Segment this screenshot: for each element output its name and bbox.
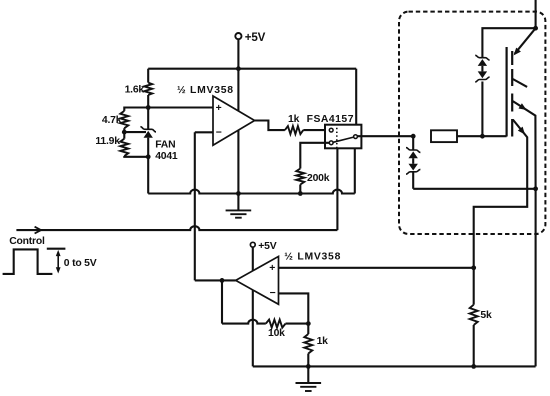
wire Z1 mid <box>412 158 414 164</box>
node ground rail / 200k junction <box>298 191 303 196</box>
node bottom rail / 1k junction <box>306 364 311 369</box>
node bottom rail / 5k junction <box>471 364 476 369</box>
diode zener Z1 upper (cathode up) <box>406 148 420 153</box>
node divider midpoint <box>122 130 127 135</box>
wire opamp2 noninverting input to sense node <box>279 267 474 269</box>
diode zener Z2 lower (cathode down) <box>478 71 487 78</box>
diode zener Z1 lower (cathode down) <box>409 164 418 171</box>
node sense / opamp2 + input junction <box>471 265 476 270</box>
wire top-section ground rail <box>148 190 355 194</box>
pin FSA4157 A common <box>354 135 358 139</box>
node opamp2 output junction <box>220 278 225 283</box>
wire module bottom horizontal <box>413 188 535 190</box>
wire 5k to bottom rail <box>473 325 475 366</box>
resistor 5k <box>470 305 478 325</box>
svg-text:4041: 4041 <box>155 151 178 162</box>
switch lever FSA4157 <box>333 137 354 142</box>
svg-text:5k: 5k <box>480 310 492 321</box>
svg-text:4.7k: 4.7k <box>102 115 122 126</box>
wire 10k to feedback node <box>286 323 309 325</box>
node gate / Z2 junction <box>480 134 485 139</box>
wire divider node to FAN4041 <box>124 131 146 133</box>
svg-text:1k: 1k <box>317 336 329 347</box>
transistor drain lead D1 <box>513 79 527 87</box>
svg-text:Control: Control <box>9 236 45 247</box>
resistor 1k (opamp1 output) <box>285 126 303 134</box>
wire divider node to R 11.9k <box>123 132 125 139</box>
node ground rail / opamp1 supply junction <box>236 191 241 196</box>
svg-text:+: + <box>216 103 222 114</box>
wire sense node to 5k <box>473 268 475 305</box>
wire opamp1 noninverting input <box>148 106 213 108</box>
wire gate resistor to gate node <box>457 135 507 137</box>
wire FAN4041 anode down to ground rail <box>147 138 149 194</box>
wire node to R 4.7k top <box>124 108 148 111</box>
transistor channel segments <box>511 51 513 65</box>
wire feedback from opamp2 output <box>194 132 196 280</box>
wire opamp2 output <box>195 279 236 281</box>
transistor lead S3 (arrow out, down) <box>474 120 528 268</box>
svg-text:+5V: +5V <box>258 241 276 252</box>
transistor lead S2 (arrow out, to right rail) <box>513 101 536 189</box>
wire Z2 to top node <box>482 28 535 58</box>
svg-text:1k: 1k <box>288 114 300 125</box>
power +5V supply 2 terminal <box>250 242 255 247</box>
wire module top entry <box>535 0 537 28</box>
svg-text:200k: 200k <box>307 173 330 184</box>
ground top section <box>237 194 239 211</box>
node module bottom / right vertical junction <box>533 186 538 191</box>
wire 4.7k bottom to divider node <box>123 128 125 132</box>
node FAN4041 / 11.9k junction <box>146 154 151 159</box>
pin FSA4157 B0 <box>329 128 333 132</box>
svg-text:+5V: +5V <box>245 31 266 44</box>
wire Z2 top from source node wire <box>481 82 483 137</box>
node top rail / +5V junction <box>236 66 241 71</box>
wire +5V top rail <box>148 68 356 70</box>
resistor gate (box style) <box>431 130 457 142</box>
wire bottom ground rail <box>253 365 536 367</box>
resistor 4.7k <box>120 111 128 128</box>
wire 11.9k bottom to node <box>124 155 148 158</box>
power +5V supply 1 terminal <box>235 33 241 39</box>
svg-text:1.6k: 1.6k <box>125 85 145 96</box>
node 1.6k / opamp1 +input junction <box>146 105 151 110</box>
svg-text:½ LMV358: ½ LMV358 <box>284 251 341 262</box>
resistor 200k <box>296 169 304 185</box>
wire 200k bottom to ground rail <box>299 185 301 194</box>
resistor 11.9k <box>120 139 128 156</box>
wire 1k to FSA4157 pin <box>303 129 329 131</box>
svg-text:11.9k: 11.9k <box>95 136 120 147</box>
wire opamp2 ground stem <box>252 290 254 367</box>
waveform control pulse <box>3 249 53 274</box>
wire FSA4157 control pin to control line <box>336 148 338 230</box>
wire 1.6k node down to FAN4041 cathode <box>147 108 149 130</box>
svg-text:FSA4157: FSA4157 <box>307 114 354 125</box>
wire 1k to bottom rail <box>307 354 309 367</box>
wire top rail left drop to R 1.6k <box>147 69 149 83</box>
svg-text:−: − <box>270 288 276 299</box>
wire opamp2 output to 10k <box>221 280 223 323</box>
wire Z2 mid <box>481 66 483 72</box>
switch control dotted line <box>336 128 338 148</box>
op-amp U1B half LMV358 (mirrored) <box>236 256 279 304</box>
wire control input line <box>16 226 337 230</box>
transistor Q1/Q2 gate bar <box>506 47 508 137</box>
svg-text:10k: 10k <box>268 328 285 339</box>
arrow amplitude double-headed <box>57 253 59 272</box>
arrow control direction <box>35 227 41 234</box>
pin FSA4157 B1 <box>329 141 333 145</box>
wire FSA4157 B1 to 200k <box>300 143 329 169</box>
svg-text:−: − <box>216 127 222 138</box>
wire right rail to bottom <box>535 189 537 367</box>
svg-text:+: + <box>269 263 275 274</box>
wire node to 1k <box>307 324 309 334</box>
reference FAN4041 zener symbol <box>140 127 156 132</box>
ground bottom section <box>307 366 309 383</box>
wire opamp2 inverting input <box>279 293 309 323</box>
op-amp U1A half LMV358 <box>213 96 255 145</box>
resistor 1.6k <box>144 83 152 95</box>
wire node to zener Z1 <box>412 136 414 150</box>
diode zener Z2 upper (cathode up) <box>475 55 489 60</box>
module dashed enclosure <box>399 12 545 234</box>
svg-text:0 to 5V: 0 to 5V <box>64 258 97 269</box>
wire FSA4157 GND stem <box>354 148 356 193</box>
wire FSA4157 V+ stem <box>355 69 357 125</box>
resistor 10k <box>266 320 286 328</box>
node feedback 10k/1k junction <box>306 321 311 326</box>
transistor source lead S1 (arrow into channel) <box>515 28 536 54</box>
node source top junction <box>533 26 538 31</box>
svg-text:FAN: FAN <box>155 140 175 151</box>
wire opamp1 output <box>255 121 285 131</box>
svg-text:½ LMV358: ½ LMV358 <box>177 85 234 96</box>
resistor 1k (feedback) <box>304 334 312 354</box>
wire FSA4157 output into module <box>357 135 413 137</box>
wire opamp1 supply stem <box>237 69 239 194</box>
wire opamp1 inverting input <box>195 131 213 133</box>
switch FSA4157 body <box>325 125 361 149</box>
wire R1.6k bottom to node <box>147 95 149 108</box>
node module input junction <box>411 134 416 139</box>
waveform top reference line <box>47 248 66 250</box>
wire Z1 to module bottom wire <box>412 172 414 189</box>
